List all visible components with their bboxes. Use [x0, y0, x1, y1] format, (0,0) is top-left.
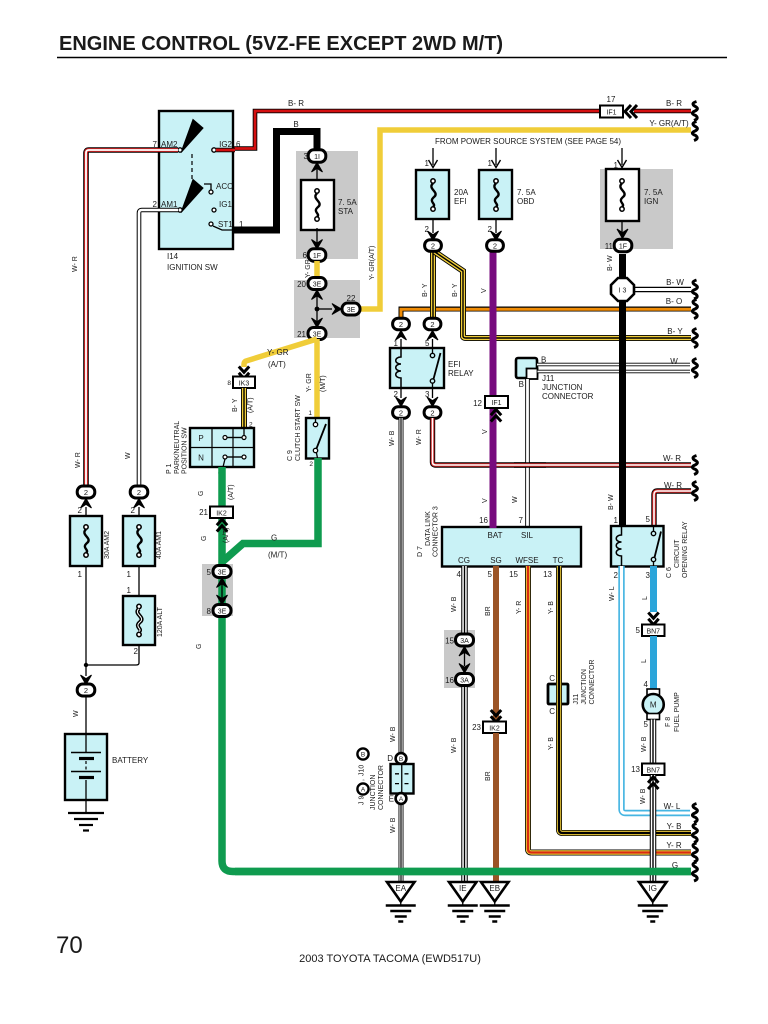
wire W-B CG from DLC3 to ground IE [461, 566, 468, 635]
wire W-B BN7 to ground IG [650, 775, 657, 884]
svg-text:D 7: D 7 [417, 546, 424, 557]
svg-text:IK2: IK2 [216, 511, 227, 518]
svg-text:W- R: W- R [72, 256, 79, 272]
wire junction to 22 3E [317, 308, 332, 310]
svg-text:BATTERY: BATTERY [112, 756, 149, 765]
svg-text:3: 3 [646, 571, 651, 580]
wire overlay W-R over SIL wire [514, 462, 546, 467]
wire OBD fuse to oval [495, 219, 497, 233]
svg-text:12: 12 [473, 399, 482, 408]
brace B-O [692, 300, 697, 319]
wire G green M/T branch from clutch switch [222, 458, 318, 562]
svg-text:V: V [482, 498, 489, 503]
wire 20 3E to 21 3E [316, 296, 318, 322]
connector oval 2 AM2 [77, 486, 95, 498]
arrow right into 22 3E [332, 304, 342, 315]
svg-text:23: 23 [472, 723, 481, 732]
wire oval to relay pin1 [400, 339, 402, 349]
wire BR IK2 to ground EB [493, 733, 499, 884]
svg-text:Y- GR(A/T): Y- GR(A/T) [369, 246, 376, 280]
connector oval 2 relay pin2 [393, 407, 410, 419]
arrow down into pin2 oval [396, 397, 407, 407]
wire oval to fuse AM1 [138, 507, 140, 517]
wire overlay B-W vertical [619, 345, 626, 524]
wire W from AM1 to fuse 40A [139, 210, 178, 487]
svg-text:2: 2 [614, 571, 619, 580]
wire fuse STA to 1F [316, 228, 318, 250]
svg-text:(M/T): (M/T) [320, 375, 327, 392]
svg-text:JUNCTION: JUNCTION [581, 669, 588, 704]
svg-text:20: 20 [297, 280, 306, 289]
svg-text:3E: 3E [347, 307, 356, 314]
brace B-W [692, 280, 697, 299]
connector oval 2 OBD fuse [487, 240, 504, 252]
wire L BN7 to fuel pump [650, 636, 657, 690]
ground IG triangle [639, 882, 667, 902]
ground symbol EB [480, 902, 510, 922]
svg-text:2: 2 [493, 242, 497, 251]
svg-text:W: W [73, 710, 80, 717]
svg-text:1: 1 [78, 570, 83, 579]
wire W from J11 right upper [537, 363, 690, 366]
feed arrow EFI fuse [425, 148, 438, 168]
fuel pump F8 motor [643, 689, 664, 720]
svg-text:EA: EA [395, 884, 406, 893]
svg-text:3A: 3A [460, 638, 469, 645]
svg-text:W- B: W- B [641, 736, 648, 752]
svg-text:2: 2 [84, 488, 88, 497]
svg-text:W: W [512, 496, 519, 503]
wire B-Y from EFI oval straight down to relay pin5 [430, 250, 436, 319]
svg-text:2: 2 [131, 506, 136, 515]
wire EFI fuse to oval [432, 219, 434, 233]
connector oval B on wire [387, 753, 406, 764]
svg-text:W- R: W- R [416, 429, 423, 445]
svg-text:40A AM1: 40A AM1 [156, 531, 163, 559]
svg-text:DATA LINK: DATA LINK [425, 511, 432, 546]
fuse 30A AM2 [70, 516, 102, 566]
ground symbol battery [68, 813, 104, 831]
svg-text:1: 1 [239, 220, 244, 229]
svg-text:I 3: I 3 [619, 288, 627, 295]
grey panel IGN fuse [600, 169, 673, 249]
svg-text:W- B: W- B [390, 726, 397, 742]
svg-text:1: 1 [614, 516, 619, 525]
wire Y-R WFSE from DLC3 to right edge [528, 566, 691, 853]
wire B-W 1F to I3 [619, 254, 626, 280]
svg-text:21: 21 [297, 330, 306, 339]
svg-text:(A/T): (A/T) [248, 397, 255, 413]
arrow down into OBD oval 2 [491, 231, 502, 241]
svg-text:ENGINE CONTROL (5VZ-FE EXCEPT: ENGINE CONTROL (5VZ-FE EXCEPT 2WD M/T) [59, 33, 503, 55]
fuse 7.5A IGN [606, 169, 663, 221]
connector IK2 left [199, 507, 233, 519]
P/N switch contacts N row [223, 455, 246, 467]
svg-text:TC: TC [553, 556, 564, 565]
grey panel STA fuse [296, 151, 358, 259]
wire Y-GR 1F to 3E [314, 261, 320, 279]
svg-text:W- B: W- B [451, 737, 458, 753]
wire BR SG from DLC3 to IK2 [493, 566, 499, 722]
connector oval 2 EFI relay pin1 [393, 318, 410, 330]
svg-text:1F: 1F [619, 244, 627, 251]
svg-text:B- Y: B- Y [667, 327, 683, 336]
connector oval 21 3E [297, 328, 326, 340]
svg-text:5: 5 [207, 568, 212, 577]
svg-text:BR: BR [485, 771, 492, 781]
EFI relay switch [430, 348, 440, 388]
svg-text:W- R: W- R [75, 452, 82, 468]
chevrons down above IK2 mid [491, 710, 501, 722]
feed arrow OBD fuse [488, 148, 501, 168]
connector oval 8 3E [207, 605, 231, 617]
svg-text:Y- GR: Y- GR [306, 373, 313, 392]
svg-text:5: 5 [488, 570, 493, 579]
clutch start switch C9 box [306, 418, 329, 459]
chevrons up below IK2 [217, 519, 227, 531]
ignition key lever AM2 [181, 120, 203, 153]
svg-text:G: G [198, 491, 205, 496]
connector IK3 [227, 377, 255, 389]
svg-text:G: G [196, 644, 203, 649]
svg-text:B: B [519, 380, 524, 389]
wire relay pin3 to oval [432, 388, 434, 398]
svg-text:120A ALT: 120A ALT [157, 606, 164, 637]
svg-text:ST1: ST1 [218, 220, 233, 229]
junction connector J11 upper [516, 358, 538, 379]
svg-text:1F: 1F [313, 253, 321, 260]
svg-text:2: 2 [153, 200, 158, 209]
svg-text:FUEL PUMP: FUEL PUMP [674, 692, 681, 732]
svg-text:IE: IE [459, 884, 467, 893]
svg-text:W- R: W- R [663, 454, 681, 463]
wire B-O from EFI relay pin1 up and right [401, 309, 691, 319]
svg-text:FROM POWER SOURCE SYSTEM (SEE: FROM POWER SOURCE SYSTEM (SEE PAGE 54) [435, 137, 621, 146]
connector oval 2 AM1 [130, 486, 148, 498]
svg-text:6: 6 [303, 251, 308, 260]
svg-text:3E: 3E [218, 609, 227, 616]
wire oval to relay pin5 [432, 339, 434, 349]
svg-text:Y- B: Y- B [667, 822, 682, 831]
svg-text:W- B: W- B [389, 430, 396, 446]
svg-text:2: 2 [137, 488, 141, 497]
svg-text:IK3: IK3 [239, 381, 250, 388]
arrow down into pin3 oval [427, 397, 438, 407]
octagon connector I3 [611, 278, 634, 301]
svg-text:OBD: OBD [517, 197, 535, 206]
junction dot battery [84, 663, 88, 667]
fuse 120A ALT [123, 596, 155, 645]
svg-text:2: 2 [78, 506, 83, 515]
svg-text:B: B [293, 120, 298, 129]
dashed link between levers [191, 154, 193, 180]
arrow down into 1F IGN [617, 229, 628, 239]
connector oval 2 EFI fuse [425, 240, 442, 252]
svg-text:C 6: C 6 [666, 567, 673, 578]
svg-text:1: 1 [394, 339, 399, 348]
svg-text:W- R: W- R [664, 481, 682, 490]
arrow up into relay pin1 oval [396, 331, 407, 341]
svg-text:WFSE: WFSE [515, 556, 538, 565]
brace B-Y [692, 329, 697, 348]
svg-text:2: 2 [309, 461, 313, 468]
svg-text:BAT: BAT [488, 531, 503, 540]
park/neutral position switch P1 box [190, 428, 254, 467]
brace G [692, 862, 697, 881]
arrow down into 16 3A [459, 664, 470, 674]
svg-text:A: A [361, 787, 366, 794]
svg-text:IG: IG [649, 884, 657, 893]
ignition contact IG2 [212, 148, 216, 152]
junction circle legend B [357, 748, 368, 759]
connector oval A on wire [389, 793, 407, 804]
wire B-Y IK3 to park/neutral switch [241, 388, 247, 429]
svg-text:C 9: C 9 [287, 450, 294, 461]
wire L from relay pin3 to BN7 [650, 566, 657, 612]
grey panel 3A [444, 630, 475, 688]
svg-text:W- B: W- B [451, 596, 458, 612]
circuit opening relay C6 box [611, 526, 664, 567]
svg-text:W- L: W- L [664, 802, 681, 811]
svg-text:B: B [361, 752, 365, 759]
arrow up into 15 3A [459, 647, 470, 657]
fuse 7.5A OBD [479, 170, 536, 219]
arrow up into relay pin5 oval [427, 331, 438, 341]
svg-text:8: 8 [207, 607, 212, 616]
arrow down into battery oval [81, 675, 92, 685]
svg-text:Y- GR: Y- GR [267, 348, 289, 357]
svg-text:1: 1 [127, 570, 132, 579]
wire W from J11 right lower [538, 370, 691, 373]
ignition switch I14 box [159, 111, 233, 249]
svg-text:2: 2 [430, 409, 434, 418]
arrow up into AM1 oval [134, 499, 145, 509]
wire oval to battery [85, 696, 87, 735]
svg-text:F 8: F 8 [665, 717, 672, 727]
brace Y-B [692, 824, 697, 843]
ignition contact AM2 [178, 148, 182, 152]
fuse 20A EFI [416, 170, 469, 219]
connector IF1 mid [473, 396, 508, 408]
wire W-B from A oval down to ground EA [399, 803, 404, 884]
battery plates [71, 734, 101, 800]
wire Y-B TC from DLC3 to J11 lower [556, 566, 562, 685]
chevrons up below BN7 [648, 777, 658, 789]
wire overlay V purple [490, 350, 497, 528]
svg-text:17: 17 [607, 95, 616, 104]
svg-text:B- R: B- R [666, 99, 682, 108]
svg-text:(A/T): (A/T) [268, 360, 286, 369]
svg-text:16: 16 [479, 516, 488, 525]
svg-text:13: 13 [631, 765, 640, 774]
wire between 3A ovals [464, 653, 466, 666]
svg-text:L: L [641, 659, 648, 663]
svg-text:PARK/NEUTRAL: PARK/NEUTRAL [174, 421, 181, 474]
arrow up into 5 3E [217, 578, 228, 588]
svg-text:5: 5 [644, 720, 649, 729]
svg-text:AM1: AM1 [161, 200, 178, 209]
ground EA triangle [387, 882, 415, 902]
svg-text:B- W: B- W [607, 255, 614, 271]
svg-text:JUNCTION: JUNCTION [542, 383, 583, 392]
svg-text:V: V [481, 288, 488, 293]
svg-text:,: , [359, 779, 366, 781]
ignition contact ST1 [209, 222, 213, 226]
svg-text:W: W [125, 452, 132, 459]
svg-text:W- B: W- B [390, 817, 397, 833]
svg-text:CONNECTOR: CONNECTOR [542, 392, 594, 401]
connector oval 15 3A [445, 634, 473, 646]
svg-text:Y- R: Y- R [516, 601, 523, 614]
wire IGN fuse to 1F [621, 221, 623, 238]
brace W-R 2 [692, 482, 697, 501]
svg-text:7. 5A: 7. 5A [517, 188, 536, 197]
arrow down into 1F [312, 240, 323, 250]
svg-text:OPENING RELAY: OPENING RELAY [682, 521, 689, 578]
svg-text:5: 5 [636, 626, 641, 635]
svg-text:P: P [198, 434, 203, 443]
svg-text:BN7: BN7 [646, 768, 660, 775]
svg-text:(A/T): (A/T) [223, 527, 230, 543]
chevrons down above BN7 [648, 613, 658, 625]
battery box [65, 734, 107, 800]
svg-text:CG: CG [458, 556, 470, 565]
junction dot [315, 307, 320, 312]
fuse 40A AM1 [123, 516, 155, 566]
chevrons left-pointing at IF1 [625, 105, 637, 118]
connector BN7 lower [631, 764, 664, 776]
connector IF1 top [600, 106, 623, 118]
P/N switch contacts P row [223, 429, 246, 440]
wire B-W double from I3 to right edge [634, 287, 691, 293]
svg-text:ACC: ACC [216, 182, 233, 191]
svg-text:IF1: IF1 [491, 400, 501, 407]
junction circle legend A [357, 783, 368, 794]
svg-text:1: 1 [308, 410, 312, 417]
wire Y-GR diagonal 21 3E to IK3 [244, 339, 317, 367]
svg-text:CLUTCH START SW: CLUTCH START SW [295, 395, 302, 461]
circuit opening relay coil [616, 526, 621, 566]
svg-text:Y- GR(A/T): Y- GR(A/T) [649, 119, 689, 128]
wire W-L from relay pin2 to right edge [622, 566, 691, 813]
svg-text:IK2: IK2 [489, 726, 500, 733]
ground EB triangle [481, 882, 509, 902]
connector oval 1F [303, 249, 326, 261]
wire ALT down and left to junction [86, 645, 139, 665]
brace W-L [692, 804, 697, 823]
svg-text:W- B: W- B [640, 788, 647, 804]
svg-text:CIRCUIT: CIRCUIT [674, 539, 681, 568]
title underline [57, 57, 727, 59]
wire Y-GR(M/T) 21 3E to clutch [314, 339, 320, 419]
wire relay pin2 to oval [400, 388, 402, 398]
ground symbol IG [638, 902, 668, 922]
svg-text:8: 8 [227, 380, 231, 387]
wire V purple OBD to IF1 to DLC3 [490, 251, 497, 528]
arrow up into 1I [312, 163, 323, 173]
svg-text:1: 1 [425, 159, 430, 168]
wire B-R from ignition IG2 to IF1 [233, 111, 600, 149]
brace Y-GR(A/T) [692, 122, 697, 141]
svg-text:IGN: IGN [644, 197, 658, 206]
svg-text:30A AM2: 30A AM2 [104, 531, 111, 559]
ignition contact ACC [209, 190, 213, 194]
svg-text:L: L [642, 596, 649, 600]
svg-text:I14: I14 [167, 252, 179, 261]
svg-text:G: G [271, 534, 277, 543]
svg-text:3A: 3A [460, 678, 469, 685]
svg-text:BN7: BN7 [646, 629, 660, 636]
svg-text:M: M [650, 701, 657, 710]
wire junction to battery oval [85, 665, 87, 676]
svg-text:STA: STA [338, 207, 354, 216]
svg-text:JUNCTION: JUNCTION [370, 775, 377, 810]
ACC stub [204, 184, 211, 190]
connector oval 11 1F [605, 239, 632, 251]
svg-text:CONNECTOR 3: CONNECTOR 3 [433, 506, 440, 557]
svg-text:E: E [389, 795, 394, 804]
svg-text:7: 7 [519, 516, 524, 525]
svg-text:V: V [482, 429, 489, 434]
wire W-R from relay pin3 to right edge [433, 418, 692, 465]
wire W-B fuel pump to BN7 [650, 720, 657, 765]
svg-text:7. 5A: 7. 5A [338, 198, 357, 207]
svg-text:1: 1 [127, 586, 132, 595]
svg-text:CONNECTOR: CONNECTOR [378, 765, 385, 810]
grey panel 3E lower [202, 564, 233, 616]
svg-text:16: 16 [445, 676, 454, 685]
svg-text:1: 1 [488, 159, 493, 168]
wire AM2 fuse down [85, 566, 87, 665]
svg-text:5: 5 [425, 339, 430, 348]
svg-text:RELAY: RELAY [448, 369, 474, 378]
svg-text:SIL: SIL [521, 531, 534, 540]
svg-text:13: 13 [543, 570, 552, 579]
svg-text:IG1: IG1 [219, 200, 232, 209]
chevrons up below IF1 mid [491, 409, 501, 421]
circuit opening relay switch [651, 526, 661, 566]
svg-text:B- W: B- W [608, 494, 615, 510]
svg-text:2: 2 [431, 242, 435, 251]
wire B-W I3 down to circuit opening relay [619, 299, 626, 527]
svg-text:Y- B: Y- B [548, 601, 555, 614]
svg-text:2: 2 [134, 647, 139, 656]
wire W-R from AM2 to fuse 30A [86, 150, 178, 487]
svg-text:P 1: P 1 [166, 464, 173, 474]
svg-text:C: C [549, 707, 555, 716]
feed arrow IGN fuse [614, 148, 627, 170]
wire B-Y diagonal from EFI oval to right edge [435, 252, 691, 338]
wire W-R circuit opening relay pin5 to right edge [654, 491, 691, 526]
wire Y-GR(A/T) top horizontal [361, 130, 691, 309]
connector oval 22 3E [342, 294, 360, 315]
svg-text:22: 22 [347, 294, 356, 303]
ground IE triangle [449, 882, 477, 902]
svg-text:SG: SG [490, 556, 502, 565]
svg-text:B- Y: B- Y [232, 398, 239, 412]
ground symbol EA [386, 902, 416, 922]
connector oval 1I [304, 150, 326, 162]
ignition contact IG1 [212, 208, 216, 212]
wire W from J11 down to SIL [525, 379, 530, 528]
svg-text:Y- R: Y- R [666, 841, 681, 850]
connector oval 5 3E [207, 566, 231, 578]
arrow up into 20 3E [312, 290, 323, 300]
svg-text:EB: EB [489, 884, 500, 893]
connector oval 2 relay pin3 [424, 407, 441, 419]
svg-text:20A: 20A [454, 188, 469, 197]
svg-text:1I: 1I [314, 154, 320, 161]
